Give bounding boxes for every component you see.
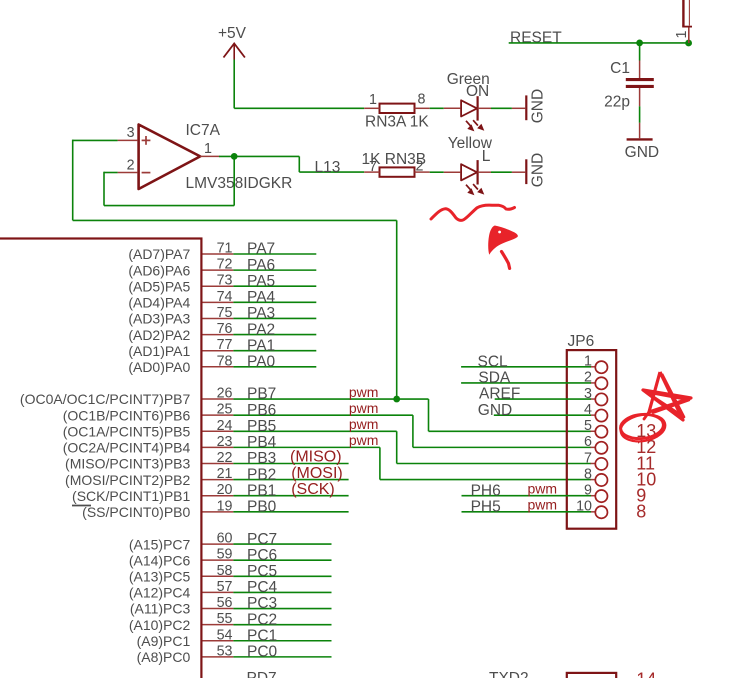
annotation number 9: [636, 486, 646, 506]
svg-text:PD7: PD7: [247, 670, 277, 678]
JP6 pin 7 circle: [595, 458, 607, 470]
svg-text:(AD2)PA2: (AD2)PA2: [128, 327, 190, 343]
svg-text:PB7: PB7: [247, 386, 276, 403]
pin 60 number: [217, 531, 233, 547]
marker ellipse around 13: [619, 411, 668, 444]
LED cathode stub yellow: [478, 171, 491, 173]
net label PB4: [247, 434, 277, 451]
svg-text:(AD5)PA5: (AD5)PA5: [128, 278, 190, 294]
wire net PA4: [233, 301, 316, 303]
pin 24 number: [217, 418, 233, 434]
marker star: [643, 372, 691, 420]
net label PC6: [247, 547, 277, 564]
RN3B pin 7 stub: [364, 171, 379, 173]
pin name (OC0A/OC1C/PCINT7)PB7: [20, 391, 191, 407]
svg-text:PC4: PC4: [247, 579, 278, 596]
svg-text:(AD7)PA7: (AD7)PA7: [128, 246, 190, 262]
connector box (clipped bottom): [567, 673, 616, 678]
pin name (SCK/PCINT1)PB1: [72, 488, 190, 504]
svg-text:(MOSI/PCINT2)PB2: (MOSI/PCINT2)PB2: [65, 472, 190, 488]
svg-text:ON: ON: [466, 83, 489, 100]
label (SCK): [291, 481, 335, 498]
net label PB3: [247, 450, 276, 467]
JP6 pin 6 number: [584, 434, 592, 450]
pin name (OC2A/PCINT4)PB4: [63, 440, 191, 456]
annotation number 13: [636, 421, 656, 441]
JP6 pin 2 number: [584, 370, 592, 386]
svg-text:(AD4)PA4: (AD4)PA4: [128, 295, 190, 311]
svg-text:GND: GND: [530, 89, 547, 123]
annotation number 10: [636, 469, 656, 489]
pin name (OC1A/PCINT5)PB5: [63, 423, 191, 439]
svg-text:PH5: PH5: [471, 499, 501, 516]
svg-text:14: 14: [636, 670, 656, 678]
pin 25 (PB6) stub: [203, 414, 234, 416]
svg-text:(MISO/PCINT3)PB3: (MISO/PCINT3)PB3: [65, 456, 190, 472]
JP6 pin 10 circle: [595, 506, 607, 518]
svg-text:2: 2: [127, 157, 135, 173]
net label PA5: [247, 273, 275, 290]
wire op-amp - input: [104, 172, 118, 174]
svg-text:PB0: PB0: [247, 499, 277, 516]
pin 21 (PB2) stub: [203, 479, 234, 481]
GND pin stub under C1: [639, 123, 641, 138]
wire net PB7: [233, 398, 428, 400]
pin name (A8)PC0: [137, 649, 191, 665]
pin 23 number: [217, 434, 233, 450]
net label PB5: [247, 418, 276, 435]
svg-text:5: 5: [584, 418, 592, 434]
net label SCL: [478, 354, 509, 371]
pin 22 number: [217, 450, 233, 466]
pin name (AD5)PA5: [128, 278, 190, 294]
wire net L13: [299, 171, 364, 173]
label L: [482, 148, 491, 165]
svg-text:(AD3)PA3: (AD3)PA3: [128, 311, 190, 327]
wire net PA2: [233, 334, 316, 336]
pin 19 number: [217, 498, 233, 514]
node PB7 junction: [393, 396, 400, 403]
marker arrow blob: [488, 226, 518, 269]
pin 58 (PC5) stub: [203, 575, 234, 577]
svg-text:RN3A 1K: RN3A 1K: [365, 113, 429, 130]
wire PB7 jog down: [428, 399, 430, 431]
active-low bar on (S of PB1 name: [72, 505, 91, 507]
pin 72 (PA6) stub: [203, 269, 234, 271]
pin 73 number: [217, 273, 233, 289]
pin name (SS/PCINT0)PB0: [82, 504, 190, 520]
svg-text:59: 59: [217, 547, 233, 563]
svg-text:pwm: pwm: [349, 384, 379, 400]
pin 56 (PC3) stub: [203, 608, 234, 610]
svg-text:(AD6)PA6: (AD6)PA6: [128, 262, 190, 278]
wire down to PB7 junction: [396, 220, 398, 399]
wire PB4 jog down: [379, 447, 381, 479]
pin 1 stub (op-amp out): [200, 155, 219, 157]
JP6 pin 8 number: [584, 466, 592, 482]
wire along y=220 to PB7: [73, 219, 397, 221]
pin 2 number: [127, 157, 135, 173]
pin 1 number rotated: [674, 31, 690, 39]
net label PA0: [247, 354, 276, 371]
svg-text:54: 54: [217, 627, 233, 643]
svg-text:22: 22: [217, 450, 233, 466]
annotation number 12: [636, 437, 656, 457]
svg-text:(A12)PC4: (A12)PC4: [129, 585, 191, 601]
svg-text:1: 1: [204, 141, 212, 157]
svg-text:L13: L13: [315, 159, 341, 176]
JP6 pin 1 circle: [595, 361, 607, 373]
label (MOSI): [291, 465, 343, 482]
svg-text:24: 24: [217, 418, 233, 434]
svg-text:PC5: PC5: [247, 563, 277, 580]
wire net GND (JP6): [494, 414, 591, 416]
pin 20 (PB1) stub: [203, 495, 234, 497]
wire +5V net vertical: [233, 60, 235, 109]
JP6 pin 3 circle: [595, 393, 607, 405]
wire PB5 jog down: [396, 431, 398, 463]
connector JP6 label: [568, 333, 595, 350]
JP6 pin 4 number: [584, 402, 592, 418]
pin 23 (PB4) stub: [203, 446, 234, 448]
svg-text:PC0: PC0: [247, 644, 278, 661]
svg-text:PB3: PB3: [247, 450, 276, 467]
pin name (AD1)PA1: [128, 343, 190, 359]
JP6 pin 8 circle: [595, 474, 607, 486]
net label PB6: [247, 402, 276, 419]
LED D-green: [461, 96, 478, 120]
pin 72 number: [217, 257, 233, 273]
JP6 pin 9 circle: [595, 490, 607, 502]
wire RN3B to LED: [430, 171, 444, 173]
svg-text:L: L: [482, 148, 491, 165]
wire RESET to C1: [639, 43, 641, 61]
wire net PC6: [233, 559, 331, 561]
pin 54 (PC1) stub: [203, 640, 234, 642]
pin 78 (PA0) stub: [203, 366, 234, 368]
JP6 pin 5 number: [584, 418, 592, 434]
wire net AREF: [495, 398, 591, 400]
svg-text:(MOSI): (MOSI): [291, 465, 343, 482]
label Yellow: [448, 135, 493, 152]
wire net PB4: [233, 446, 380, 448]
svg-text:(A14)PC6: (A14)PC6: [129, 552, 191, 568]
svg-text:60: 60: [217, 531, 233, 547]
net label TXD2 (clipped): [489, 670, 529, 678]
JP6 pin 7 stub: [591, 462, 596, 464]
svg-text:(AD1)PA1: (AD1)PA1: [128, 343, 190, 359]
wire net PB0: [233, 511, 348, 513]
svg-text:IC7A: IC7A: [186, 122, 221, 139]
GND stub (green LED): [512, 107, 525, 109]
net label AREF: [479, 386, 520, 403]
wire net PB2: [233, 479, 348, 481]
label pwm (PB4): [349, 432, 379, 448]
RN3B pin 2 number: [416, 159, 424, 175]
pin 71 (PA7) stub: [203, 253, 234, 255]
svg-text:(AD0)PA0: (AD0)PA0: [128, 359, 190, 375]
svg-text:LMV358IDGKR: LMV358IDGKR: [186, 175, 293, 192]
marker squiggle: [431, 205, 515, 220]
wire LED to GND: [491, 107, 512, 109]
RN3B value label: [362, 151, 427, 168]
annotation number 14 (clipped): [636, 670, 656, 678]
pin 77 (PA1) stub: [203, 350, 234, 352]
pin 71 number: [217, 241, 233, 257]
pin name (AD2)PA2: [128, 327, 190, 343]
pin 75 (PA3) stub: [203, 317, 234, 319]
connector JP6 box: [567, 350, 616, 529]
svg-text:PC7: PC7: [247, 531, 277, 548]
svg-text:PB4: PB4: [247, 434, 277, 451]
svg-text:pwm: pwm: [349, 400, 379, 416]
wire PB4 to JP6 pin 8: [380, 479, 591, 481]
svg-text:PC6: PC6: [247, 547, 277, 564]
label Green: [447, 71, 490, 88]
net label PA4: [247, 289, 276, 306]
wire +5V net horizontal: [234, 107, 364, 109]
pin name (AD0)PA0: [128, 359, 190, 375]
wire C1 to GND: [639, 106, 641, 123]
svg-text:(SCK): (SCK): [291, 481, 335, 498]
label pwm (PB6): [349, 400, 379, 416]
svg-text:6: 6: [584, 434, 592, 450]
wire net PC5: [233, 575, 331, 577]
pin 53 (PC0) stub: [203, 656, 234, 658]
svg-text:(SCK/PCINT1)PB1: (SCK/PCINT1)PB1: [72, 488, 190, 504]
JP6 pin 2 stub: [591, 382, 596, 384]
net label PC5: [247, 563, 277, 580]
IC main box (partial): [0, 239, 201, 678]
wire net PC1: [233, 640, 331, 642]
svg-text:GND: GND: [625, 144, 659, 161]
op-amp value LMV358IDGKR: [186, 175, 293, 192]
JP6 pin 3 number: [584, 386, 592, 402]
svg-text:73: 73: [217, 273, 233, 289]
wire PB5 to JP6 pin 7: [397, 462, 591, 464]
svg-text:GND: GND: [478, 402, 512, 419]
wire feedback left vertical: [103, 172, 105, 206]
svg-text:pwm: pwm: [349, 432, 379, 448]
net label PB2: [247, 466, 276, 483]
pin 53 number: [217, 643, 233, 659]
pin name PD7 (clipped at bottom): [247, 670, 277, 678]
svg-text:(A11)PC3: (A11)PC3: [130, 601, 191, 617]
wire net PC7: [233, 543, 331, 545]
net label PC2: [247, 611, 277, 628]
pin 54 number: [217, 627, 233, 643]
JP6 pin 5 stub: [591, 430, 596, 432]
svg-text:pwm: pwm: [527, 497, 557, 513]
annotation number 11: [636, 453, 655, 473]
pin name (MOSI/PCINT2)PB2: [65, 472, 190, 488]
svg-text:+5V: +5V: [218, 25, 247, 42]
svg-text:55: 55: [217, 611, 233, 627]
C1 pin 2 stub: [639, 88, 641, 106]
node op-amp output junction: [231, 153, 238, 160]
svg-text:(A13)PC5: (A13)PC5: [129, 569, 191, 585]
wire output to L13 jog: [219, 155, 299, 157]
net label L13: [315, 159, 341, 176]
op-amp label IC7A: [186, 122, 221, 139]
svg-text:PB6: PB6: [247, 402, 276, 419]
pin 20 number: [217, 482, 233, 498]
svg-text:pwm: pwm: [527, 481, 557, 497]
JP6 pin 7 number: [584, 450, 592, 466]
LED anode stub: [444, 107, 461, 109]
label pwm (PH5): [527, 497, 557, 513]
wire net PA5: [233, 285, 316, 287]
JP6 pin 10 number: [576, 499, 592, 515]
svg-text:1: 1: [674, 31, 690, 39]
wire net SDA: [461, 382, 591, 384]
svg-text:26: 26: [217, 386, 233, 402]
svg-text:1: 1: [369, 92, 377, 108]
pin 19 (PB0) stub: [203, 511, 234, 513]
svg-text:56: 56: [217, 595, 233, 611]
pin 76 number: [217, 321, 233, 337]
C1 pin 1 stub: [639, 61, 641, 79]
resistor RN3B: [380, 167, 415, 176]
svg-text:19: 19: [217, 498, 233, 514]
svg-text:75: 75: [217, 305, 233, 321]
wire net PA3: [233, 317, 316, 319]
resistor partial top-right: [682, 0, 692, 27]
JP6 pin 9 number: [584, 483, 592, 499]
net label RESET: [510, 29, 562, 46]
wire net PB6: [233, 414, 413, 416]
pin name (A10)PC2: [129, 617, 191, 633]
pin 21 number: [217, 466, 233, 482]
svg-text:PC2: PC2: [247, 611, 277, 628]
svg-text:25: 25: [217, 402, 233, 418]
net label PC3: [247, 595, 277, 612]
svg-text:71: 71: [217, 241, 233, 257]
svg-text:PA0: PA0: [247, 354, 276, 371]
wire net PA6: [233, 269, 316, 271]
label pwm (PB7): [349, 384, 379, 400]
pin name (OC1B/PCINT6)PB6: [63, 407, 191, 423]
pin 56 number: [217, 595, 233, 611]
pin 24 (PB5) stub: [203, 430, 234, 432]
wire PB7 to JP6 pin 5: [429, 430, 592, 432]
pin name (A15)PC7: [129, 536, 191, 552]
svg-text:PA4: PA4: [247, 289, 276, 306]
pin 59 (PC6) stub: [203, 559, 234, 561]
wire net PB3: [233, 462, 348, 464]
wire PB6 jog down: [412, 415, 414, 447]
svg-text:74: 74: [217, 289, 233, 305]
wire net PC2: [233, 624, 331, 626]
pin 57 number: [217, 579, 233, 595]
svg-text:20: 20: [217, 482, 233, 498]
pin name (AD3)PA3: [128, 311, 190, 327]
svg-text:(OC2A/PCINT4)PB4: (OC2A/PCINT4)PB4: [63, 440, 191, 456]
wire net SCL: [461, 366, 591, 368]
wire feedback bottom: [104, 205, 234, 207]
net label PC0: [247, 644, 278, 661]
wire feedback right vertical: [233, 156, 235, 205]
svg-text:PC3: PC3: [247, 595, 277, 612]
net label PC4: [247, 579, 278, 596]
svg-text:pwm: pwm: [349, 416, 379, 432]
JP6 pin 8 stub: [591, 479, 596, 481]
wire jog down: [298, 156, 300, 172]
svg-text:8: 8: [636, 502, 646, 522]
svg-text:PB2: PB2: [247, 466, 276, 483]
node RESET junction 2: [685, 40, 692, 47]
svg-text:JP6: JP6: [568, 333, 595, 350]
svg-text:57: 57: [217, 579, 233, 595]
RN3A value label: [365, 113, 429, 130]
pin name (MISO/PCINT3)PB3: [65, 456, 190, 472]
pin 75 number: [217, 305, 233, 321]
pin 1 stub top-right: [688, 27, 690, 43]
power +5V symbol: [218, 25, 247, 60]
svg-text:(A10)PC2: (A10)PC2: [129, 617, 191, 633]
net label PB1: [247, 482, 276, 499]
JP6 pin 1 number: [584, 354, 592, 370]
svg-text:8: 8: [584, 466, 592, 482]
wire net PB1: [233, 495, 348, 497]
wire PB6 to JP6 pin 6: [413, 446, 591, 448]
ground GND (yellow LED row): [526, 153, 546, 187]
svg-text:SDA: SDA: [478, 370, 511, 387]
svg-text:PA5: PA5: [247, 273, 275, 290]
pin 3 number: [127, 125, 135, 141]
svg-text:AREF: AREF: [479, 386, 520, 403]
pin name (A9)PC1: [137, 633, 191, 649]
pin 25 number: [217, 402, 233, 418]
node RESET junction 1: [636, 40, 643, 47]
GND stub (yellow LED): [512, 171, 525, 173]
net label PC7: [247, 531, 277, 548]
pin 78 number: [217, 353, 233, 369]
svg-text:3: 3: [127, 125, 135, 141]
pin 55 number: [217, 611, 233, 627]
LED green arrows: [466, 120, 484, 131]
RN3A pin 8 number: [418, 92, 426, 108]
svg-text:PC1: PC1: [247, 627, 277, 644]
pin name (A11)PC3: [130, 601, 191, 617]
pin 60 (PC7) stub: [203, 543, 234, 545]
wire net PB5: [233, 430, 396, 432]
svg-text:78: 78: [217, 353, 233, 369]
LED D-yellow: [461, 160, 478, 184]
pin name (AD6)PA6: [128, 262, 190, 278]
JP6 pin 4 circle: [595, 409, 607, 421]
svg-text:(OC1B/PCINT6)PB6: (OC1B/PCINT6)PB6: [63, 407, 191, 423]
LED yellow arrows: [466, 184, 484, 195]
svg-text:PA6: PA6: [247, 257, 275, 274]
ground GND (green LED row): [526, 89, 546, 123]
wire net PC0: [233, 656, 331, 658]
wire net PA1: [233, 350, 316, 352]
RN3A pin 8 stub: [415, 107, 430, 109]
pin 55 (PC2) stub: [203, 624, 234, 626]
svg-text:(A15)PC7: (A15)PC7: [129, 536, 191, 552]
svg-text:C1: C1: [610, 60, 630, 77]
JP6 pin 6 circle: [595, 442, 607, 454]
label ON: [466, 83, 489, 100]
JP6 pin 6 stub: [591, 446, 596, 448]
svg-text:72: 72: [217, 257, 233, 273]
capacitor C1: [626, 78, 654, 88]
net label SDA: [478, 370, 511, 387]
pin name (AD4)PA4: [128, 295, 190, 311]
net label PA6: [247, 257, 275, 274]
label pwm (PB5): [349, 416, 379, 432]
